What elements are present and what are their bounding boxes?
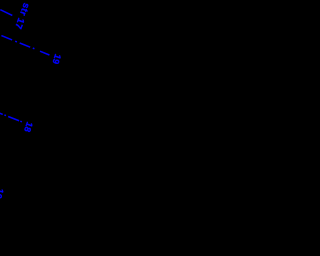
- boundary line A (dash-dot): [0, 10, 12, 16]
- boundary line B (dash-dot): [1, 36, 49, 55]
- boundary line C (dash-dot): [0, 113, 22, 122]
